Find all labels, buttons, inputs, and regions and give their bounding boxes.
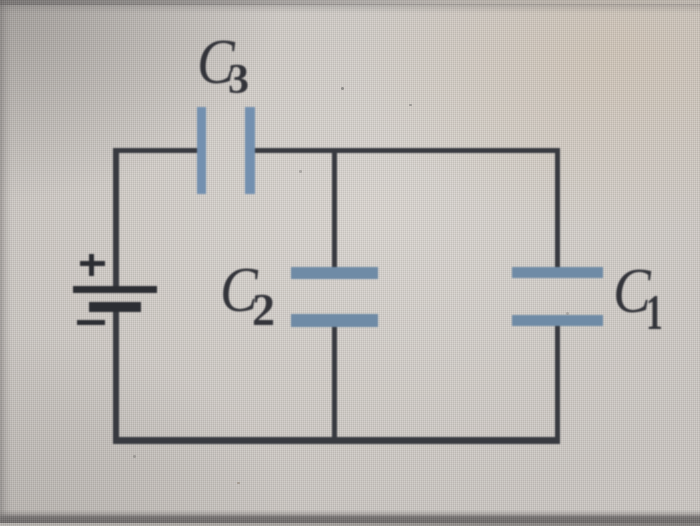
battery V1 plus sign horizontal stroke bbox=[80, 261, 105, 266]
node: bottom junction of middle branch bbox=[331, 437, 337, 443]
wire: right upper bbox=[555, 148, 561, 270]
label C1 bbox=[613, 259, 651, 323]
capacitor C3 left plate bbox=[197, 107, 207, 194]
capacitor C1 top plate bbox=[512, 267, 603, 278]
wire: right lower bbox=[555, 325, 561, 444]
capacitor C2 bottom plate bbox=[291, 314, 378, 327]
battery V1 plus sign vertical stroke bbox=[89, 254, 94, 277]
label C3 bbox=[197, 30, 235, 94]
wire: bottom bbox=[113, 437, 560, 444]
wire: middle upper bbox=[332, 150, 337, 267]
capacitor C1 bottom plate bbox=[512, 315, 603, 327]
battery V1 negative short plate bbox=[89, 302, 141, 313]
wire: left lower (battery bottom) bbox=[113, 311, 119, 444]
battery V1 minus sign bbox=[77, 320, 105, 325]
capacitor C3 right plate bbox=[245, 107, 255, 194]
wire: left upper (battery top) bbox=[113, 148, 119, 287]
wire: top right segment bbox=[254, 148, 560, 154]
wire: middle lower bbox=[332, 326, 337, 440]
label C2 bbox=[220, 258, 258, 322]
capacitor C2 top plate bbox=[291, 267, 378, 280]
node: top junction of middle branch bbox=[331, 147, 337, 153]
wire: top left segment bbox=[114, 148, 197, 154]
battery V1 positive long plate bbox=[73, 286, 157, 294]
